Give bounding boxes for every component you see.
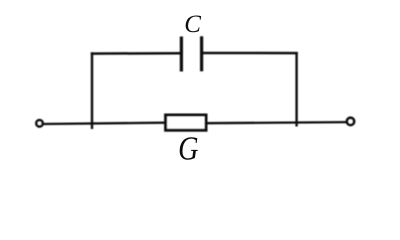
wire: right vertical branch	[295, 52, 297, 126]
capacitor C plate right	[200, 36, 203, 71]
svg-text:G: G	[178, 129, 198, 167]
svg-text:C: C	[184, 11, 201, 38]
terminal left (open circle)	[36, 120, 42, 126]
wire: capacitor to top branch right	[203, 52, 298, 55]
capacitor C plate left	[180, 37, 183, 72]
wire: resistor G to right terminal	[207, 122, 347, 123]
wire: left vertical branch	[91, 52, 93, 129]
wire: top branch left to capacitor	[91, 52, 180, 55]
wire: left terminal to resistor G	[43, 123, 165, 124]
resistor G (rectangular box)	[166, 115, 206, 130]
terminal right (open circle)	[347, 118, 354, 125]
label G (conductance value)	[178, 129, 198, 167]
